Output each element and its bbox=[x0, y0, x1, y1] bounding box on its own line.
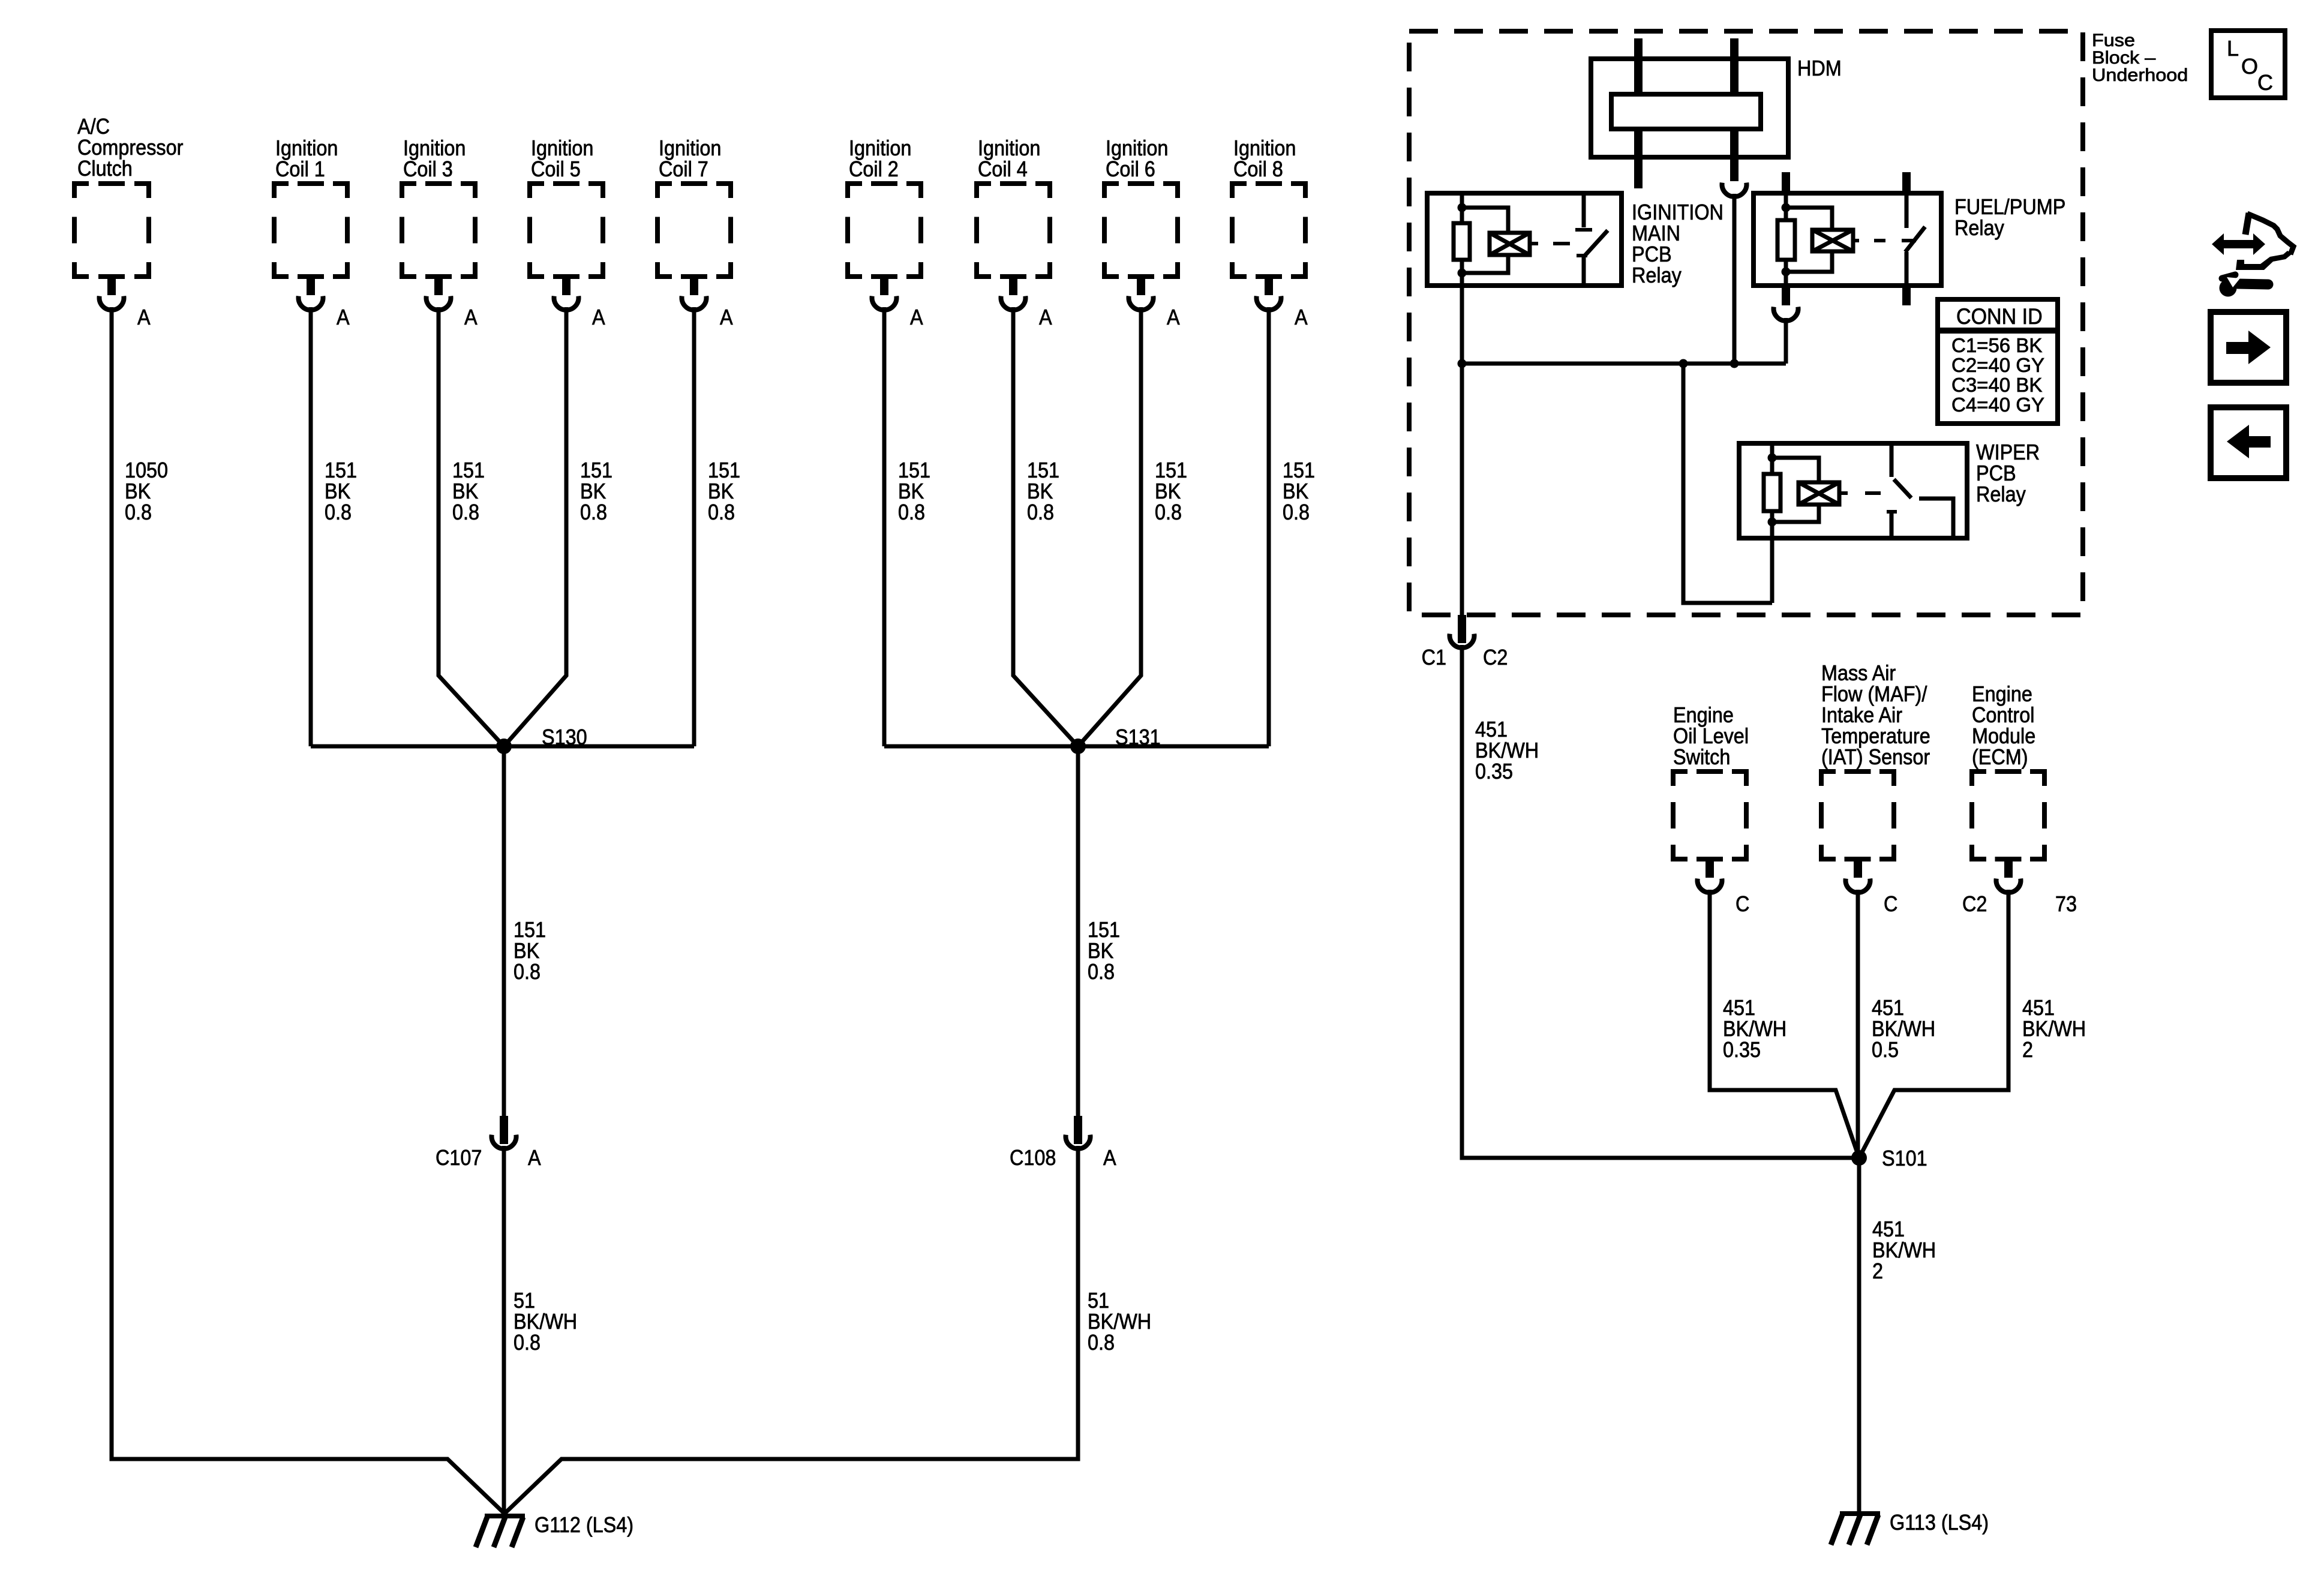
svg-text:0.8: 0.8 bbox=[1283, 500, 1310, 524]
svg-text:Ignition: Ignition bbox=[403, 136, 466, 160]
wire 451 BK/WH 0.35 oil switch to S101 bbox=[1710, 890, 1859, 1158]
resistor (relay internal) bbox=[1764, 474, 1780, 511]
svg-text:151: 151 bbox=[1027, 458, 1059, 482]
svg-text:0.5: 0.5 bbox=[1872, 1038, 1899, 1062]
svg-text:1050: 1050 bbox=[125, 458, 168, 482]
svg-text:0.8: 0.8 bbox=[898, 500, 925, 524]
wire bus to wiper relay bbox=[1683, 364, 1772, 603]
svg-text:C2=40 GY: C2=40 GY bbox=[1951, 354, 2044, 376]
svg-text:Compressor: Compressor bbox=[77, 136, 183, 160]
connector at fuel pump relay coil pin bbox=[1782, 286, 1790, 305]
svg-text:HDM: HDM bbox=[1797, 56, 1842, 80]
connector C107 bbox=[500, 1116, 508, 1144]
relay coil (box with X) bbox=[1490, 233, 1530, 255]
connector pin A of Ignition Coil 7 bbox=[690, 277, 698, 295]
svg-text:Ignition: Ignition bbox=[659, 136, 721, 160]
svg-text:0.8: 0.8 bbox=[1088, 1331, 1115, 1355]
connector pin A of Ignition Coil 6 bbox=[1137, 277, 1145, 295]
svg-text:451: 451 bbox=[1872, 996, 1904, 1020]
svg-text:BK/WH: BK/WH bbox=[1872, 1017, 1935, 1041]
svg-text:Module: Module bbox=[1972, 724, 2035, 748]
HDM right pin bbox=[1730, 38, 1739, 96]
svg-text:A: A bbox=[720, 305, 733, 329]
svg-text:A/C: A/C bbox=[77, 115, 110, 139]
svg-text:BK: BK bbox=[1088, 939, 1113, 963]
wire 151 BK 0.8 from S130 to C107 bbox=[502, 746, 506, 1116]
svg-text:L: L bbox=[2227, 36, 2239, 61]
relay IGINITION MAIN PCB Relay (box) bbox=[1427, 193, 1622, 286]
svg-text:0.35: 0.35 bbox=[1475, 760, 1513, 784]
wire ignition coil 1 to S130 bbox=[309, 307, 313, 746]
svg-text:451: 451 bbox=[2022, 996, 2055, 1020]
component Ignition Coil 6 (dashed box) bbox=[1104, 184, 1178, 277]
LOC icon box bbox=[2211, 31, 2285, 98]
svg-text:CONN ID: CONN ID bbox=[1956, 304, 2043, 329]
relay WIPER PCB Relay (box) bbox=[1739, 443, 1967, 538]
connector C1/C2 at fuse block bbox=[1458, 615, 1466, 643]
svg-text:Coil 5: Coil 5 bbox=[531, 157, 581, 181]
ground G113 bbox=[1840, 1511, 1880, 1516]
svg-text:BK/WH: BK/WH bbox=[1475, 739, 1539, 763]
svg-text:C: C bbox=[1736, 892, 1749, 916]
svg-text:PCB: PCB bbox=[1632, 242, 1672, 266]
svg-text:451: 451 bbox=[1723, 996, 1755, 1020]
junction (relay coil top) bbox=[1458, 203, 1467, 212]
component HDM (fuse) bbox=[1591, 59, 1788, 157]
wire relay switch to box edge bbox=[1919, 499, 1953, 538]
HDM left pin bbox=[1634, 38, 1643, 96]
wire relay coil return bbox=[1462, 255, 1508, 273]
svg-text:BK: BK bbox=[580, 479, 606, 503]
svg-text:Control: Control bbox=[1972, 703, 2034, 727]
svg-text:BK: BK bbox=[452, 479, 478, 503]
svg-text:Ignition: Ignition bbox=[275, 136, 338, 160]
junction bus wiper branch bbox=[1679, 359, 1688, 368]
svg-text:C3=40 BK: C3=40 BK bbox=[1951, 374, 2042, 396]
wire 151 BK 0.8 from S131 to C108 bbox=[1076, 746, 1080, 1116]
svg-text:Switch: Switch bbox=[1673, 745, 1730, 769]
svg-text:151: 151 bbox=[452, 458, 485, 482]
svg-text:PCB: PCB bbox=[1976, 461, 2016, 485]
svg-text:C2: C2 bbox=[1483, 646, 1508, 670]
connector pin C of Engine Oil Level Switch bbox=[1706, 859, 1714, 878]
relay switch bbox=[1582, 193, 1586, 227]
svg-text:151: 151 bbox=[898, 458, 930, 482]
component Ignition Coil 3 (dashed box) bbox=[402, 184, 475, 277]
service icon: wrench bbox=[2220, 280, 2237, 297]
svg-text:2: 2 bbox=[1872, 1259, 1883, 1283]
dashed actuation link bbox=[1853, 239, 1859, 242]
wire ignition coil 6 to S131 bbox=[1078, 307, 1141, 746]
svg-text:A: A bbox=[528, 1146, 541, 1170]
svg-text:Temperature: Temperature bbox=[1821, 724, 1930, 748]
svg-text:C1=56 BK: C1=56 BK bbox=[1951, 334, 2042, 356]
wire ignition coil 8 to S131 bbox=[1267, 307, 1271, 746]
svg-text:451: 451 bbox=[1475, 718, 1508, 742]
wire relay coil return bbox=[1772, 505, 1819, 522]
wire fuel pump relay to bus bbox=[1784, 318, 1788, 364]
svg-text:Ignition: Ignition bbox=[531, 136, 593, 160]
service icon: part outline bbox=[2245, 213, 2249, 235]
svg-text:S130: S130 bbox=[542, 725, 587, 749]
svg-text:S131: S131 bbox=[1115, 725, 1161, 749]
svg-text:51: 51 bbox=[1088, 1289, 1109, 1313]
component Ignition Coil 4 (dashed box) bbox=[977, 184, 1050, 277]
svg-text:BK: BK bbox=[1283, 479, 1308, 503]
svg-text:BK/WH: BK/WH bbox=[2022, 1017, 2086, 1041]
svg-text:BK/WH: BK/WH bbox=[514, 1310, 577, 1334]
svg-text:2: 2 bbox=[2022, 1038, 2033, 1062]
connector pin A of Ignition Coil 2 bbox=[880, 277, 888, 295]
svg-text:WIPER: WIPER bbox=[1976, 440, 2040, 464]
svg-text:151: 151 bbox=[514, 918, 546, 942]
svg-text:0.8: 0.8 bbox=[452, 500, 479, 524]
svg-text:A: A bbox=[1103, 1146, 1116, 1170]
CONN ID table bbox=[1938, 299, 2058, 424]
svg-text:A: A bbox=[464, 305, 478, 329]
svg-text:BK: BK bbox=[514, 939, 539, 963]
dashed actuation link bbox=[1530, 242, 1538, 245]
wire 1050 BK 0.8 from A/C clutch to G112 bbox=[112, 307, 505, 1514]
connector C108 bbox=[1074, 1116, 1082, 1144]
svg-text:0.8: 0.8 bbox=[325, 500, 352, 524]
svg-text:0.8: 0.8 bbox=[125, 500, 152, 524]
junction (relay coil bottom) bbox=[1782, 268, 1791, 277]
svg-text:G112 (LS4): G112 (LS4) bbox=[535, 1513, 633, 1537]
svg-text:A: A bbox=[1295, 305, 1308, 329]
wire ignition coil 3 to S130 bbox=[439, 307, 504, 746]
connector pin A of Ignition Coil 1 bbox=[307, 277, 315, 295]
svg-text:73: 73 bbox=[2055, 892, 2077, 916]
resistor (relay internal) bbox=[1777, 220, 1795, 260]
svg-text:BK: BK bbox=[125, 479, 151, 503]
svg-text:Engine: Engine bbox=[1972, 682, 2032, 706]
svg-text:Ignition: Ignition bbox=[849, 136, 911, 160]
svg-text:151: 151 bbox=[1088, 918, 1120, 942]
svg-text:C4=40 GY: C4=40 GY bbox=[1951, 394, 2044, 416]
wire HDM to bus bbox=[1733, 194, 1737, 364]
junction bus HDM bbox=[1730, 359, 1739, 368]
svg-text:0.8: 0.8 bbox=[708, 500, 735, 524]
svg-text:Ignition: Ignition bbox=[978, 136, 1040, 160]
wire ignition coil 4 to S131 bbox=[1013, 307, 1078, 746]
svg-text:151: 151 bbox=[708, 458, 740, 482]
svg-text:Intake Air: Intake Air bbox=[1821, 703, 1902, 727]
svg-text:Flow (MAF)/: Flow (MAF)/ bbox=[1821, 682, 1927, 706]
wire 51 BK/WH 0.8 from C107 to G112 bbox=[502, 1146, 506, 1514]
component A/C Compressor Clutch (dashed box) bbox=[74, 184, 149, 277]
wire 451 BK/WH 2 from S101 to G113 bbox=[1857, 1158, 1861, 1511]
connector pin A of A/C Compressor Clutch bbox=[107, 277, 116, 295]
svg-text:O: O bbox=[2241, 54, 2258, 79]
wire S131 horizontal bus bbox=[884, 745, 1269, 749]
fuel pump relay switch bottom pin bbox=[1902, 286, 1911, 305]
svg-text:Ignition: Ignition bbox=[1233, 136, 1296, 160]
svg-text:151: 151 bbox=[325, 458, 357, 482]
connector pin C of MAF/IAT Sensor bbox=[1854, 859, 1862, 878]
fuel pump relay coil top pin bbox=[1782, 172, 1790, 195]
svg-text:0.8: 0.8 bbox=[1155, 500, 1182, 524]
svg-text:A: A bbox=[1167, 305, 1180, 329]
svg-text:Coil 2: Coil 2 bbox=[849, 157, 899, 181]
splice S130 bbox=[496, 739, 512, 754]
svg-text:A: A bbox=[1039, 305, 1052, 329]
svg-text:Coil 7: Coil 7 bbox=[659, 157, 708, 181]
svg-text:IGINITION: IGINITION bbox=[1632, 200, 1724, 224]
fuse block underhood dashed enclosure bbox=[1409, 31, 2083, 615]
wire ignition coil 7 to S130 bbox=[692, 307, 696, 746]
connector at HDM right pin bbox=[1730, 127, 1739, 181]
svg-text:S101: S101 bbox=[1882, 1146, 1927, 1170]
junction (relay coil top) bbox=[1768, 454, 1777, 463]
svg-text:(ECM): (ECM) bbox=[1972, 745, 2028, 769]
wire to relay coil bbox=[1772, 458, 1819, 482]
svg-text:151: 151 bbox=[1155, 458, 1187, 482]
svg-text:A: A bbox=[137, 305, 151, 329]
svg-text:Oil Level: Oil Level bbox=[1673, 724, 1749, 748]
svg-text:151: 151 bbox=[580, 458, 612, 482]
junction bus left bbox=[1458, 359, 1467, 368]
svg-text:MAIN: MAIN bbox=[1632, 221, 1680, 245]
component Ignition Coil 5 (dashed box) bbox=[530, 184, 603, 277]
component MAF/IAT Sensor (dashed box) bbox=[1821, 772, 1894, 859]
component Ignition Coil 1 (dashed box) bbox=[274, 184, 347, 277]
connector pin A of Ignition Coil 8 bbox=[1265, 277, 1273, 295]
service icon: double arrow bbox=[2212, 233, 2265, 255]
svg-text:0.8: 0.8 bbox=[1088, 960, 1115, 984]
relay coil pin (internal) bbox=[1770, 443, 1774, 538]
svg-text:Engine: Engine bbox=[1673, 703, 1734, 727]
wire 51 BK/WH 0.8 from C108 to G112 bbox=[505, 1146, 1078, 1514]
svg-text:0.8: 0.8 bbox=[514, 1331, 541, 1355]
relay coil (box with X) bbox=[1798, 482, 1839, 505]
svg-text:Mass Air: Mass Air bbox=[1821, 661, 1896, 685]
svg-text:0.8: 0.8 bbox=[514, 960, 541, 984]
svg-text:C: C bbox=[1884, 892, 1897, 916]
svg-text:C1: C1 bbox=[1422, 646, 1446, 670]
connector pin A of Ignition Coil 4 bbox=[1009, 277, 1017, 295]
svg-text:Relay: Relay bbox=[1976, 482, 2026, 506]
relay coil pin (internal) bbox=[1460, 193, 1464, 286]
svg-text:151: 151 bbox=[1283, 458, 1315, 482]
svg-text:C108: C108 bbox=[1010, 1146, 1056, 1170]
component ECM (dashed box) bbox=[1972, 772, 2044, 859]
wire 451 BK/WH 0.35 from C1 to S101 bbox=[1462, 645, 1859, 1158]
svg-text:Ignition: Ignition bbox=[1106, 136, 1168, 160]
dashed actuation link bbox=[1839, 491, 1848, 495]
svg-text:C2: C2 bbox=[1962, 892, 1987, 916]
component Ignition Coil 8 (dashed box) bbox=[1232, 184, 1305, 277]
svg-text:Relay: Relay bbox=[1954, 216, 2005, 240]
wire to relay coil bbox=[1462, 208, 1508, 233]
junction (relay coil top) bbox=[1782, 203, 1791, 212]
svg-text:BK: BK bbox=[1027, 479, 1053, 503]
svg-text:BK: BK bbox=[1155, 479, 1181, 503]
wire wiper relay coil pin below box bbox=[1770, 538, 1774, 603]
svg-text:C: C bbox=[2257, 70, 2273, 95]
wire to relay coil bbox=[1786, 208, 1832, 230]
svg-text:0.35: 0.35 bbox=[1723, 1038, 1761, 1062]
component Ignition Coil 2 (dashed box) bbox=[848, 184, 921, 277]
svg-text:Coil 1: Coil 1 bbox=[275, 157, 325, 181]
wire 451 BK/WH 2 ECM to S101 bbox=[1859, 890, 2008, 1158]
component Ignition Coil 7 (dashed box) bbox=[657, 184, 731, 277]
svg-text:Coil 6: Coil 6 bbox=[1106, 157, 1155, 181]
wire ignition coil 5 to S130 bbox=[504, 307, 566, 746]
icon arrow right (box) bbox=[2211, 312, 2286, 383]
svg-text:Coil 3: Coil 3 bbox=[403, 157, 453, 181]
wire S130 horizontal bus bbox=[311, 745, 694, 749]
svg-text:FUEL/PUMP: FUEL/PUMP bbox=[1954, 195, 2065, 219]
svg-text:Underhood: Underhood bbox=[2092, 65, 2188, 85]
relay switch bbox=[1902, 172, 1911, 195]
icon arrow left (box) bbox=[2211, 407, 2286, 478]
wire ignition coil 2 to S131 bbox=[882, 307, 887, 746]
connector pin A of Ignition Coil 3 bbox=[434, 277, 443, 295]
relay FUEL/PUMP Relay (box) bbox=[1753, 193, 1941, 286]
svg-text:BK: BK bbox=[708, 479, 734, 503]
svg-text:A: A bbox=[592, 305, 605, 329]
svg-text:Clutch: Clutch bbox=[77, 157, 133, 181]
svg-text:(IAT) Sensor: (IAT) Sensor bbox=[1821, 745, 1930, 769]
svg-text:BK: BK bbox=[325, 479, 350, 503]
svg-text:Coil 8: Coil 8 bbox=[1233, 157, 1283, 181]
svg-text:0.8: 0.8 bbox=[580, 500, 607, 524]
junction (relay coil bottom) bbox=[1768, 518, 1777, 527]
svg-text:A: A bbox=[910, 305, 923, 329]
junction (relay coil bottom) bbox=[1458, 269, 1467, 278]
svg-text:BK: BK bbox=[898, 479, 924, 503]
wire relay to C1 connector bbox=[1460, 286, 1464, 626]
connector pin A of Ignition Coil 5 bbox=[562, 277, 571, 295]
relay switch (normally closed) bbox=[1890, 443, 1894, 477]
svg-text:0.8: 0.8 bbox=[1027, 500, 1054, 524]
svg-text:BK/WH: BK/WH bbox=[1872, 1238, 1936, 1262]
component Engine Oil Level Switch (dashed box) bbox=[1673, 772, 1746, 859]
wire 451 BK/WH 0.5 MAF to S101 bbox=[1856, 890, 1860, 1158]
svg-text:51: 51 bbox=[514, 1289, 535, 1313]
splice S131 bbox=[1070, 739, 1086, 754]
ground G112 bbox=[485, 1514, 525, 1518]
svg-text:C107: C107 bbox=[436, 1146, 482, 1170]
svg-text:BK/WH: BK/WH bbox=[1088, 1310, 1151, 1334]
svg-text:A: A bbox=[337, 305, 350, 329]
svg-text:451: 451 bbox=[1872, 1217, 1905, 1241]
svg-text:BK/WH: BK/WH bbox=[1723, 1017, 1786, 1041]
connector pin 73 of ECM bbox=[2004, 859, 2013, 878]
svg-text:Relay: Relay bbox=[1632, 263, 1682, 287]
svg-text:G113 (LS4): G113 (LS4) bbox=[1890, 1511, 1989, 1535]
svg-text:Coil 4: Coil 4 bbox=[978, 157, 1028, 181]
splice S101 bbox=[1851, 1150, 1867, 1166]
relay coil (box with X) bbox=[1812, 230, 1853, 251]
wire relay coil return bbox=[1786, 251, 1832, 272]
bus wire inside fuse block bbox=[1462, 362, 1786, 366]
relay coil pin (internal) bbox=[1784, 193, 1788, 286]
resistor (relay internal) bbox=[1454, 223, 1470, 260]
